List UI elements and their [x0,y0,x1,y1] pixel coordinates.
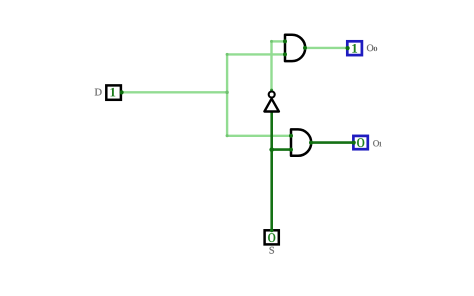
value 0 of output O1 [357,138,364,147]
value 1 of output O0 [352,44,357,53]
value 1 of input D [111,88,116,97]
input box S [265,230,279,244]
label O0 digit [374,47,377,51]
output box O0 [347,41,362,55]
node O0 input [346,46,350,50]
wire NOT output vertical [270,41,272,90]
node corner lower left [226,134,229,137]
node O1 input [352,141,356,145]
node D output [120,90,124,94]
and-gate U2 bottom [291,129,311,155]
label O1 digit [379,142,382,147]
not-gate U3 triangle [264,99,279,112]
label S [270,247,274,254]
node junction on D branch [225,91,228,94]
wire to AND2 input 2 [272,148,291,151]
not-gate U3 bubble [269,92,275,98]
wire to AND1 input 2 [227,53,285,55]
node S output [270,229,274,233]
node AND1 input 1 [283,39,287,43]
node junction on S branch [269,147,274,152]
wire S vertical [270,111,273,231]
node corner above NOT [270,40,273,43]
label O0 letter [367,44,373,51]
node AND2 input 1 [289,134,293,138]
wire D input to junction [122,91,228,93]
output box O1 [353,136,367,149]
node AND1 input 2 [283,52,287,56]
input box D [106,85,121,99]
node corner upper left [226,53,229,56]
node AND2 input 2 [289,148,293,152]
node NOT output [270,89,273,92]
label O1 letter [373,140,379,146]
wire to AND2 input 1 [227,135,291,137]
wire AND1 output to O0 [305,47,348,49]
wire to AND1 input 1 [272,40,286,42]
label D [95,89,102,96]
and-gate U1 top [285,35,305,61]
value 0 of input S [268,233,275,242]
node AND1 output [303,46,307,50]
wire AND2 output to O1 [311,141,354,144]
node AND2 output [309,141,313,145]
wire left vertical branch [226,54,228,135]
